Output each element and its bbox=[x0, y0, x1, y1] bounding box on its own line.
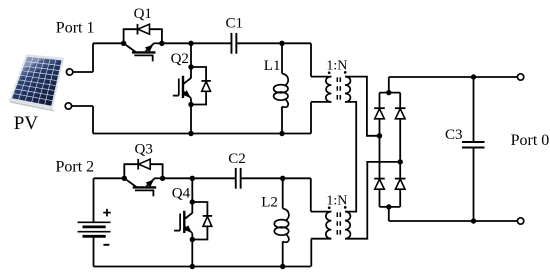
svg-text:Port 2: Port 2 bbox=[56, 159, 95, 176]
svg-text:Q1: Q1 bbox=[134, 6, 152, 22]
svg-text:Port 1: Port 1 bbox=[56, 20, 95, 37]
svg-text:Q4: Q4 bbox=[172, 186, 191, 202]
svg-text:L1: L1 bbox=[264, 58, 281, 74]
svg-text:Port 0: Port 0 bbox=[511, 132, 550, 149]
svg-text:C3: C3 bbox=[445, 127, 463, 143]
svg-text:C2: C2 bbox=[228, 151, 246, 167]
svg-text:PV: PV bbox=[14, 113, 39, 134]
svg-text:C1: C1 bbox=[226, 16, 244, 32]
svg-text:L2: L2 bbox=[261, 195, 278, 211]
svg-text:Q2: Q2 bbox=[171, 51, 189, 67]
svg-text:Q3: Q3 bbox=[135, 142, 153, 158]
svg-text:1:N: 1:N bbox=[326, 193, 347, 208]
svg-text:1:N: 1:N bbox=[326, 58, 347, 73]
